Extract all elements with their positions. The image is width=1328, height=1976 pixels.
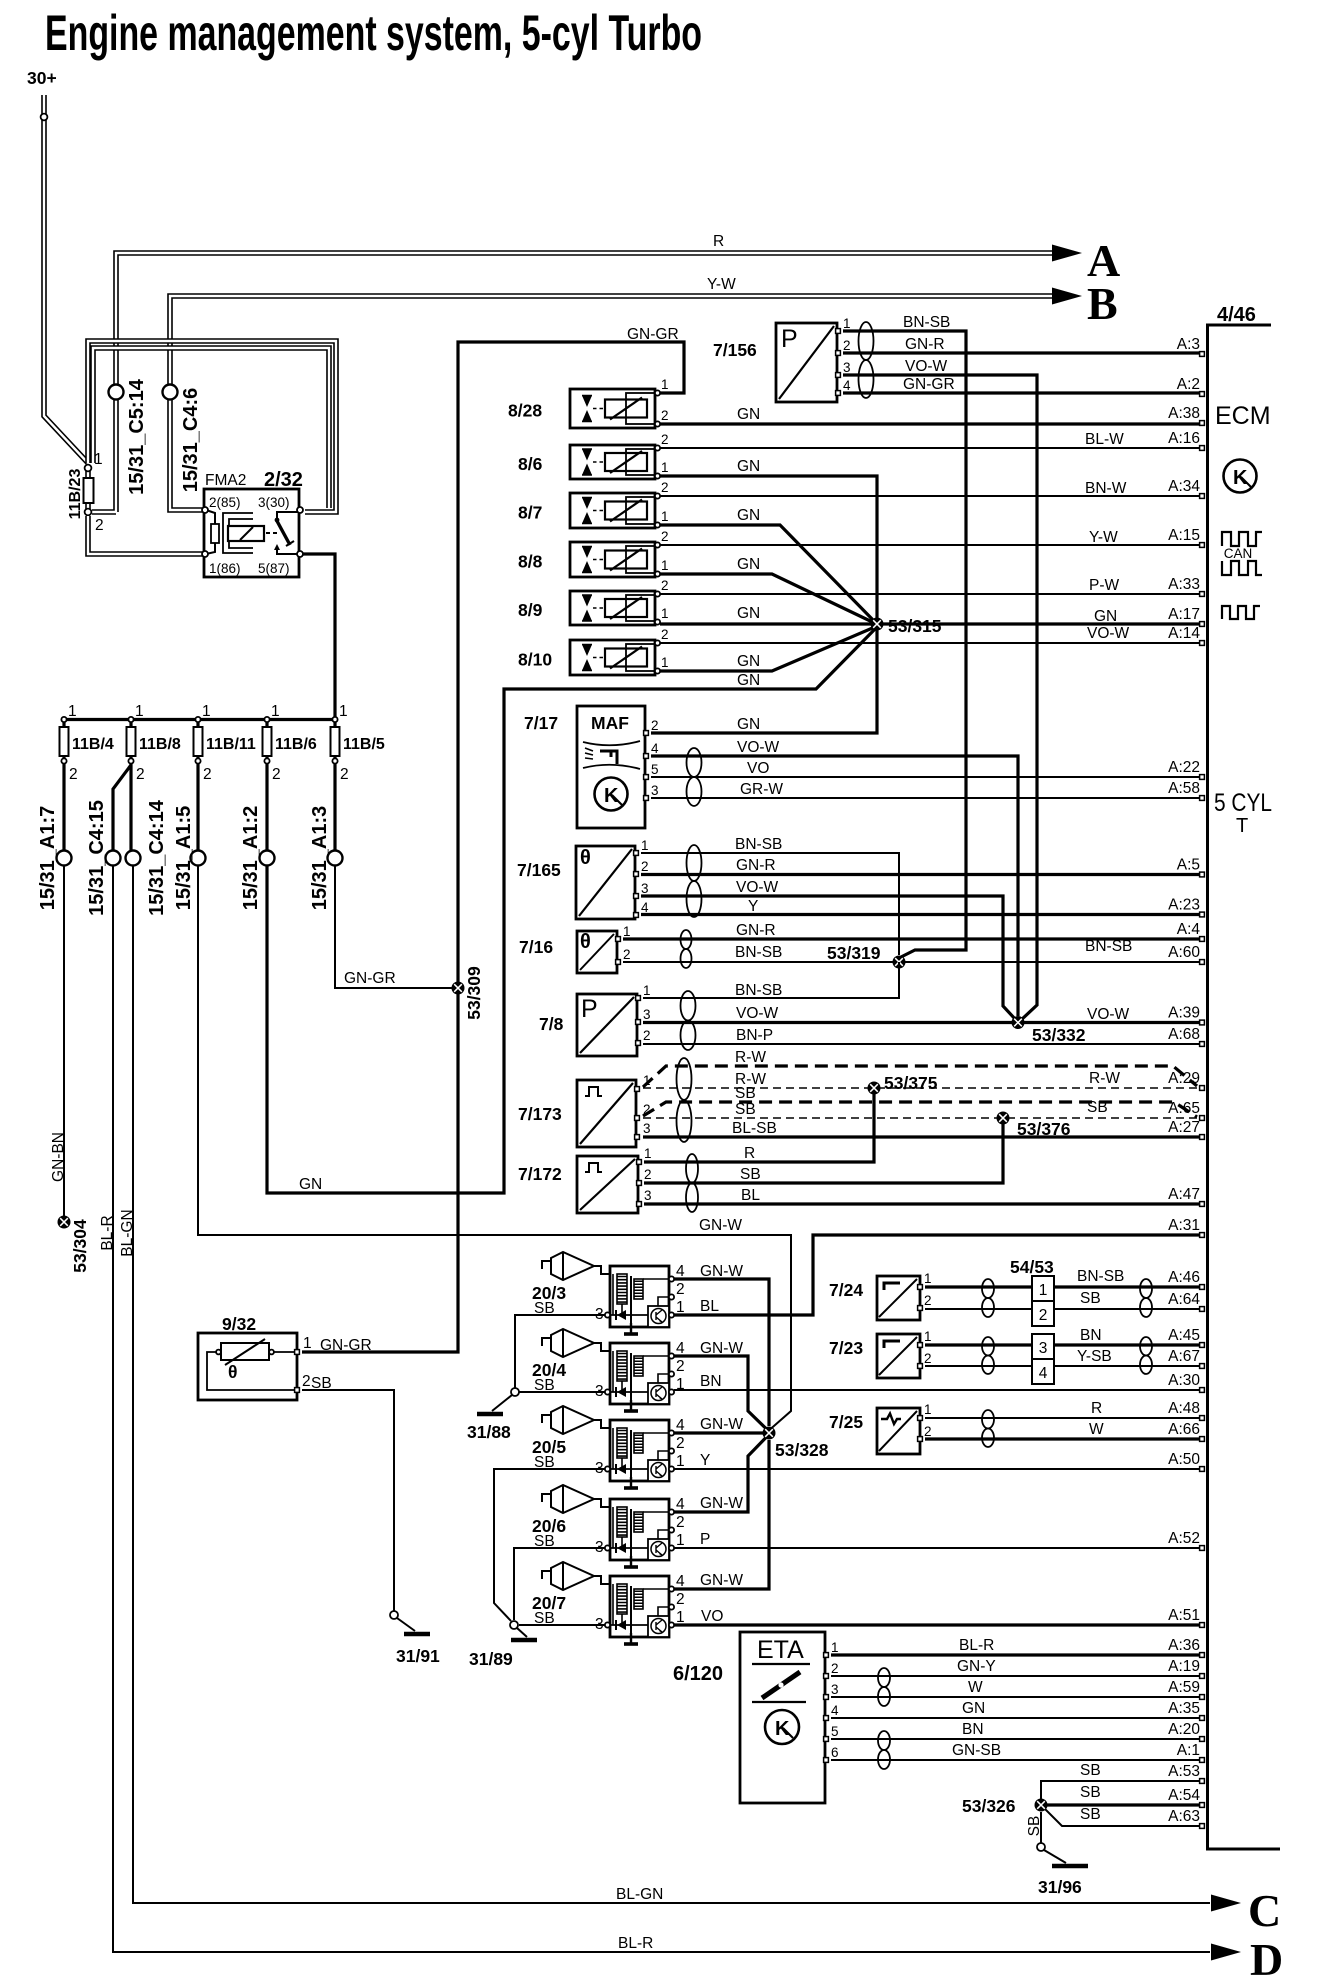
svg-text:53/315: 53/315 [888, 616, 942, 636]
svg-text:VO-W: VO-W [905, 358, 948, 375]
svg-text:53/319: 53/319 [827, 943, 881, 963]
wire below fuse 11B/5 [333, 756, 336, 852]
svg-text:A:22: A:22 [1168, 759, 1200, 776]
svg-text:Y-W: Y-W [707, 276, 736, 293]
relay coil-switch dashed link [266, 532, 278, 534]
svg-text:VO-W: VO-W [1087, 1006, 1130, 1023]
svg-text:Y-SB: Y-SB [1077, 1348, 1112, 1365]
ECM pin A:65 [1200, 1116, 1205, 1121]
ECM pin A:4 [1200, 937, 1205, 942]
wire fuse feed loop inner [93, 348, 329, 508]
ignition coil 20/3 [610, 1266, 669, 1327]
svg-text:GN: GN [737, 605, 760, 622]
svg-text:53/375: 53/375 [884, 1073, 938, 1093]
svg-text:1: 1 [644, 1146, 652, 1161]
svg-text:7/17: 7/17 [524, 713, 558, 733]
sensor 7/23 [877, 1334, 920, 1378]
svg-text:1: 1 [94, 451, 103, 468]
ECM pin A:66 [1200, 1437, 1205, 1442]
svg-text:MAF: MAF [591, 713, 629, 733]
wire 7/173 pin3 BL-SB to ECM A:27 [643, 1135, 1199, 1138]
svg-text:1: 1 [661, 460, 669, 475]
twisted pair 7/172 [686, 1154, 698, 1212]
svg-text:BN: BN [962, 1721, 984, 1738]
svg-text:2: 2 [136, 766, 145, 783]
svg-text:3: 3 [643, 1121, 651, 1136]
svg-text:15/31_A1:2: 15/31_A1:2 [240, 806, 262, 911]
svg-text:3: 3 [641, 881, 649, 896]
svg-text:A:35: A:35 [1168, 1700, 1200, 1717]
ECM pin A:20 [1200, 1737, 1205, 1742]
node 53/304 [58, 1216, 71, 1229]
svg-text:R-W: R-W [1089, 1070, 1120, 1087]
relay pin terminals [202, 507, 208, 513]
svg-text:1: 1 [68, 703, 77, 720]
wire 20/5 pin4 GN-W to 53/328 [674, 1431, 763, 1434]
wire fork 11B/8 to C4:15 [113, 765, 131, 852]
svg-text:GR-W: GR-W [740, 781, 783, 798]
svg-text:FMA2: FMA2 [205, 472, 246, 489]
svg-text:BN-W: BN-W [1085, 480, 1127, 497]
svg-text:GN: GN [737, 406, 760, 423]
shield wire of 7/173 pin1 (thick dashed) [643, 1066, 1197, 1087]
wire 53/328 down to 20/7 pin4 [674, 1440, 769, 1589]
svg-text:1: 1 [924, 1271, 932, 1286]
fuse 11B/5 [331, 727, 340, 756]
svg-text:2: 2 [661, 432, 669, 447]
wire 7/165 pin1 BN-SB to 53/319 [641, 853, 899, 955]
wire 8/6 pin2 to ECM A:16 [660, 447, 1199, 449]
svg-text:2: 2 [924, 1293, 932, 1308]
ECM K circle [1224, 460, 1257, 493]
svg-text:2: 2 [302, 1373, 311, 1390]
svg-text:15/31_C4:6: 15/31_C4:6 [180, 388, 202, 493]
svg-text:θ: θ [580, 931, 591, 953]
svg-text:2: 2 [203, 766, 212, 783]
svg-text:BN-SB: BN-SB [1077, 1268, 1124, 1285]
sensor 7/172 (speed) [577, 1156, 638, 1213]
wire 20/5 pin1 Y to ECM A:50 [674, 1468, 1199, 1470]
sensor 7/25 [877, 1408, 920, 1454]
svg-text:A:67: A:67 [1168, 1348, 1200, 1365]
ECM pin A:50 [1200, 1467, 1205, 1472]
svg-text:GN: GN [737, 672, 760, 689]
svg-text:1: 1 [924, 1402, 932, 1417]
svg-text:1: 1 [661, 558, 669, 573]
svg-text:2: 2 [661, 408, 669, 423]
ECM pin A:33 [1200, 592, 1205, 597]
ECM pin A:48 [1200, 1416, 1205, 1421]
svg-text:A:5: A:5 [1177, 857, 1200, 874]
wire below fuse 11B/6 [265, 756, 268, 852]
twisted pair 7/165 [687, 845, 702, 917]
svg-text:R: R [744, 1145, 755, 1162]
svg-text:A:59: A:59 [1168, 1679, 1200, 1696]
wire 20/7 pin3 SB to ground 31/89 [519, 1624, 605, 1626]
injector 8/9 [570, 591, 655, 625]
svg-text:11B/5: 11B/5 [343, 736, 385, 753]
wire ETA pin1 BL-R to ECM A:36 [831, 1653, 1199, 1656]
svg-text:A:54: A:54 [1168, 1787, 1200, 1804]
svg-text:2: 2 [676, 1514, 685, 1531]
svg-text:P: P [581, 995, 598, 1023]
svg-text:A:58: A:58 [1168, 780, 1200, 797]
svg-text:15/31_A1:7: 15/31_A1:7 [37, 806, 59, 911]
wire 7/23 pin2 to connector 54/53 pin4 [925, 1365, 1032, 1367]
svg-text:K: K [1233, 467, 1248, 489]
ECM pin A:54 [1200, 1803, 1205, 1808]
svg-text:15/31_A1:5: 15/31_A1:5 [173, 806, 195, 911]
ignition coil 20/4 [610, 1343, 669, 1404]
twisted pair ETA 2-3 [878, 1668, 890, 1706]
svg-text:VO-W: VO-W [736, 1005, 779, 1022]
wire 20/6 pin1 P to ECM A:52 [674, 1547, 1199, 1549]
throttle unit 6/120 ETA box [740, 1632, 825, 1803]
svg-text:BL: BL [741, 1187, 760, 1204]
wire 54/53 pin4 Y-SB to ECM A:67 [1054, 1365, 1199, 1367]
svg-text:GN-Y: GN-Y [957, 1658, 996, 1675]
node 53/328 [763, 1427, 776, 1440]
svg-text:A:33: A:33 [1168, 576, 1200, 593]
svg-text:GN-GR: GN-GR [344, 970, 396, 987]
fuse 11B/11 [196, 720, 199, 728]
svg-text:GN-W: GN-W [700, 1572, 743, 1589]
svg-text:1: 1 [676, 1453, 685, 1470]
svg-text:A:14: A:14 [1168, 625, 1200, 642]
ignition coil 20/7 [610, 1576, 669, 1637]
ignition coil 20/5 [610, 1420, 669, 1481]
wire 8/9 pin1 GN via 53/315 to ECM A:17 [660, 622, 1199, 625]
svg-text:A:29: A:29 [1168, 1070, 1200, 1087]
wire 8/10 pin1 GN [660, 627, 876, 672]
spark plug of 20/7 [542, 1570, 551, 1579]
svg-text:A:64: A:64 [1168, 1291, 1200, 1308]
ECM pin A:53 [1200, 1779, 1205, 1784]
svg-text:A:16: A:16 [1168, 430, 1200, 447]
twisted pair A:46/A:64 [1140, 1279, 1152, 1317]
svg-text:A:50: A:50 [1168, 1451, 1200, 1468]
injector 8/28 [570, 389, 655, 428]
wire 8/6 pin1 GN via 53/315 to MAF pin2 [651, 476, 877, 733]
svg-text:CAN: CAN [1224, 546, 1253, 561]
svg-text:2: 2 [843, 338, 851, 353]
wire MAF pin4 VO-W to 53/332 [651, 756, 1018, 1016]
svg-text:A:30: A:30 [1168, 1372, 1200, 1389]
svg-text:A:2: A:2 [1177, 376, 1200, 393]
connector 15/31_A1:7 [57, 851, 72, 866]
ECM pin A:19 [1200, 1674, 1205, 1679]
wire 7/24 pin2 to connector 54/53 pin2 [925, 1308, 1032, 1310]
svg-text:GN-BN: GN-BN [50, 1132, 67, 1182]
svg-text:A:19: A:19 [1168, 1658, 1200, 1675]
MAF K circle [595, 778, 628, 811]
svg-text:3: 3 [651, 783, 659, 798]
wire 8/7 pin1 GN [660, 525, 876, 623]
wire Y-W to arrow B [170, 296, 1052, 510]
connector 15/31_A1:5 [191, 851, 206, 866]
fuse 11B/4 [62, 720, 65, 728]
svg-text:A:66: A:66 [1168, 1421, 1200, 1438]
wire below fuse 11B/11 [196, 756, 199, 852]
svg-text:7/23: 7/23 [829, 1338, 863, 1358]
svg-text:SB: SB [1080, 1784, 1101, 1801]
ECM pin A:3 [1200, 352, 1205, 357]
svg-text:1: 1 [661, 655, 669, 670]
twisted pair A:45/A:67 [1140, 1337, 1152, 1374]
wire 54/53 pin2 SB to ECM A:64 [1054, 1308, 1199, 1310]
wire 8/8 pin1 GN [660, 574, 876, 624]
svg-text:4: 4 [843, 378, 851, 393]
svg-text:VO-W: VO-W [737, 739, 780, 756]
injector 8/7 [570, 493, 655, 528]
arrow C [1211, 1895, 1241, 1912]
svg-text:1: 1 [339, 703, 348, 720]
wire 7/25 pin1 R to ECM A:48 [925, 1417, 1199, 1419]
svg-text:VO-W: VO-W [1087, 625, 1130, 642]
wire GN from 15/31_A1:2 to node 53/315 [267, 628, 876, 1193]
injector 8/10 [570, 640, 655, 675]
wire GN-GR thin from 15/31_A1:3 to 53/309 [335, 866, 452, 988]
svg-text:2: 2 [661, 578, 669, 593]
twisted pair 7/173 [677, 1058, 692, 1142]
arrow A [1052, 245, 1082, 262]
MAF airflow symbol [583, 741, 640, 769]
wire SB to ECM A:53 [1041, 1781, 1199, 1805]
svg-text:GN: GN [299, 1176, 322, 1193]
wire MAF pin5 VO to ECM A:22 [651, 776, 1199, 778]
svg-text:BL: BL [700, 1298, 719, 1315]
wire 7/172 pin2 SB up to 53/376 [644, 1124, 1003, 1183]
svg-text:2: 2 [924, 1424, 932, 1439]
fuse 11B/6 [265, 720, 268, 728]
ECM pin A:38 [1200, 421, 1205, 426]
svg-text:GN-GR: GN-GR [903, 376, 955, 393]
svg-text:4: 4 [651, 741, 659, 756]
wire ETA pin4 GN to ECM A:35 [831, 1717, 1199, 1719]
connector 15/31_C4:15 [106, 851, 121, 866]
wire ETA pin5 BN to ECM A:20 [831, 1738, 1199, 1740]
svg-text:GN-W: GN-W [700, 1416, 743, 1433]
terminal circle on 30+ wire [41, 114, 48, 121]
ECM pin A:27 [1200, 1135, 1205, 1140]
svg-text:A:38: A:38 [1168, 405, 1200, 422]
wire 8/7 pin2 to ECM A:34 [660, 495, 1199, 497]
svg-text:1: 1 [135, 703, 144, 720]
wire BL-R from 15/31_C4:15 to arrow D [113, 866, 1210, 1952]
wire 20/3 pin3 SB to ground 31/88 [515, 1315, 605, 1388]
node 53/319 [893, 956, 906, 969]
spark plug of 20/5 [542, 1414, 551, 1423]
svg-text:GN-SB: GN-SB [952, 1742, 1001, 1759]
relay coil branch [206, 510, 215, 554]
ECM pin A:59 [1200, 1695, 1205, 1700]
svg-text:2: 2 [641, 859, 649, 874]
wire 20/6 pin4 GN-W to 53/328 [674, 1438, 766, 1512]
svg-text:5: 5 [831, 1724, 839, 1739]
svg-text:2: 2 [95, 517, 104, 534]
svg-text:BL-SB: BL-SB [732, 1120, 777, 1137]
wire GN-GR vertical (8/28 pin1 loop to 9/32) [302, 342, 684, 1352]
svg-text:A:31: A:31 [1168, 1217, 1200, 1234]
svg-text:11B/11: 11B/11 [206, 736, 256, 753]
wire 7/16 pin2 BN-SB via 53/319 to ECM A:60 [623, 961, 1199, 963]
svg-text:A:51: A:51 [1168, 1607, 1200, 1624]
svg-text:BN-SB: BN-SB [735, 982, 782, 999]
svg-text:GN: GN [737, 716, 760, 733]
connector 15/31_A1:3 [328, 851, 343, 866]
svg-text:GN-W: GN-W [700, 1263, 743, 1280]
svg-text:θ: θ [580, 847, 591, 869]
svg-text:BN-SB: BN-SB [735, 944, 782, 961]
svg-text:θ: θ [228, 1362, 237, 1382]
svg-text:53/326: 53/326 [962, 1796, 1016, 1816]
svg-text:SB: SB [1080, 1762, 1101, 1779]
svg-text:BN: BN [1080, 1327, 1102, 1344]
svg-text:W: W [1089, 1421, 1104, 1438]
svg-text:A:48: A:48 [1168, 1400, 1200, 1417]
wire 20/5 pin3 SB to ground 31/89 [494, 1469, 605, 1621]
wire 11B/23 pin2 to relay 1(86) [88, 516, 203, 554]
ECM 4/46 box [1208, 325, 1281, 1849]
svg-text:2: 2 [676, 1281, 685, 1298]
ECM pin A:67 [1200, 1364, 1205, 1369]
twisted pair 7/16 [681, 930, 692, 968]
wire 30+ supply [44, 95, 88, 463]
ECM pin A:39 [1200, 1020, 1205, 1025]
svg-text:1: 1 [831, 1640, 839, 1655]
svg-text:GN: GN [737, 556, 760, 573]
svg-text:4: 4 [641, 900, 649, 915]
fuse 11B/23 [85, 468, 91, 512]
svg-text:8/9: 8/9 [518, 600, 543, 620]
svg-text:6/120: 6/120 [673, 1663, 723, 1685]
svg-text:A:3: A:3 [1177, 336, 1200, 353]
svg-text:2: 2 [644, 1167, 652, 1182]
wire 7/172 pin3 BL to ECM A:47 [644, 1202, 1199, 1205]
wire relay 5(87) output to fuse bus [303, 554, 335, 727]
spark plug of 20/6 [542, 1493, 551, 1502]
wire 9/32 pin2 SB to ground 31/91 [302, 1390, 394, 1611]
svg-text:R: R [713, 233, 724, 250]
ETA K circle [765, 1710, 799, 1744]
svg-text:BN-SB: BN-SB [1085, 938, 1132, 955]
svg-text:8/8: 8/8 [518, 552, 543, 572]
ECM pin A:5 [1200, 872, 1205, 877]
ECM pin A:16 [1200, 446, 1205, 451]
twisted pair 7/156 [859, 322, 874, 398]
svg-text:P: P [700, 1531, 710, 1548]
svg-text:GN-R: GN-R [736, 922, 776, 939]
connector 15/31_C5:14 [109, 385, 124, 400]
svg-text:GN: GN [737, 653, 760, 670]
wire 8/9 pin2 to ECM A:33 [660, 593, 1199, 595]
wire 8/10 pin2 to ECM A:14 [660, 642, 1199, 644]
sensor 7/173 (speed) [577, 1080, 636, 1147]
svg-text:2: 2 [661, 480, 669, 495]
svg-text:31/91: 31/91 [396, 1646, 440, 1666]
wire SB down to ground 31/96 [1040, 1812, 1042, 1843]
svg-text:ECM: ECM [1215, 402, 1271, 430]
svg-text:2: 2 [924, 1351, 932, 1366]
svg-text:54/53: 54/53 [1010, 1257, 1054, 1277]
svg-text:7/173: 7/173 [518, 1104, 562, 1124]
svg-text:1: 1 [676, 1532, 685, 1549]
svg-text:53/304: 53/304 [70, 1219, 90, 1273]
wire 7/156 pin2 GN-R to ECM A:3 [843, 351, 1199, 354]
wire 7/172 pin1 R up to 53/375 [644, 1094, 874, 1162]
ECM pin A:51 [1200, 1623, 1205, 1628]
connector 15/31_C4:14 [126, 851, 141, 866]
ground 31/88 [511, 1388, 519, 1396]
ECM pin A:52 [1200, 1546, 1205, 1551]
svg-text:1: 1 [661, 606, 669, 621]
wire ETA pin2 GN-Y to ECM A:19 [831, 1675, 1199, 1677]
svg-text:R: R [1091, 1400, 1102, 1417]
svg-text:1: 1 [271, 703, 280, 720]
wire 20/3 pin1 BL to ECM A:31 [674, 1235, 1199, 1315]
wire R to arrow A [92, 253, 1052, 512]
wire 20/4 pin4 GN-W to 53/328 [674, 1356, 767, 1429]
svg-text:15/31_C4:15: 15/31_C4:15 [86, 800, 108, 916]
svg-text:A:63: A:63 [1168, 1808, 1200, 1825]
shield wire of 7/173 pin2 (thick dashed) [643, 1102, 1197, 1117]
spark plug of 20/4 [542, 1337, 551, 1346]
svg-text:1: 1 [924, 1329, 932, 1344]
svg-text:BN: BN [700, 1373, 722, 1390]
svg-text:7/8: 7/8 [539, 1014, 564, 1034]
svg-text:Y-W: Y-W [1089, 529, 1118, 546]
ECM pin A:63 [1200, 1824, 1205, 1829]
svg-text:15/31_C4:14: 15/31_C4:14 [146, 799, 168, 916]
svg-text:3: 3 [1039, 1340, 1048, 1357]
ECM CAN symbol [1222, 532, 1262, 546]
svg-text:2: 2 [272, 766, 281, 783]
svg-text:7/24: 7/24 [829, 1280, 863, 1300]
ECM pin A:68 [1200, 1042, 1205, 1047]
ECM pin A:46 [1200, 1285, 1205, 1290]
ECM pin A:34 [1200, 494, 1205, 499]
ECM pin A:45 [1200, 1343, 1205, 1348]
svg-text:B: B [1087, 278, 1118, 329]
svg-text:W: W [968, 1679, 983, 1696]
wire 54/53 pin1 BN-SB to ECM A:46 [1054, 1285, 1199, 1288]
ECM pin A:36 [1200, 1653, 1205, 1658]
ground 31/91 [390, 1611, 398, 1619]
svg-text:1: 1 [1039, 1282, 1048, 1299]
svg-text:7/16: 7/16 [519, 937, 553, 957]
svg-text:GN-GR: GN-GR [320, 1337, 372, 1354]
wire GN-W from 15/31_A1:5 to coils GN-W node branch [198, 866, 791, 1429]
svg-text:GN-W: GN-W [700, 1495, 743, 1512]
relay core bracket [223, 513, 253, 553]
twisted pair 7/25 [982, 1410, 994, 1447]
sensor 7/24 [877, 1276, 920, 1320]
node 53/376 [997, 1112, 1010, 1125]
svg-text:A:27: A:27 [1168, 1119, 1200, 1136]
ECM pin A:47 [1200, 1202, 1205, 1207]
ECM pin A:60 [1200, 960, 1205, 965]
svg-text:31/88: 31/88 [467, 1422, 511, 1442]
svg-text:2: 2 [1039, 1307, 1048, 1324]
twisted pair 7/23 [982, 1337, 994, 1374]
ECM pin A:58 [1200, 796, 1205, 801]
svg-text:A:39: A:39 [1168, 1005, 1200, 1022]
svg-text:15/31_A1:3: 15/31_A1:3 [309, 806, 331, 911]
svg-text:2: 2 [676, 1591, 685, 1608]
svg-text:1: 1 [661, 509, 669, 524]
wire BL-GN from 15/31_C4:14 to arrow C [133, 866, 1210, 1903]
svg-text:GN: GN [737, 458, 760, 475]
